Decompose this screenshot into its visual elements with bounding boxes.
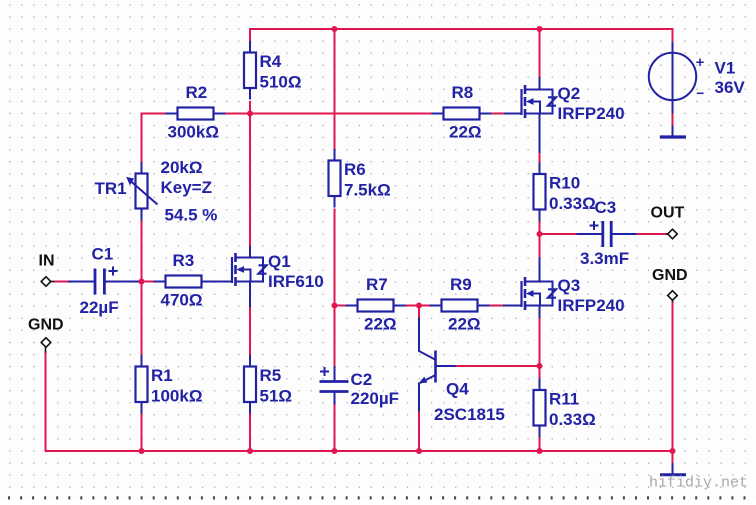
node GND connector (output) (652, 267, 688, 302)
node rail/R5 (247, 448, 253, 454)
wire top V+ rail (249, 28, 674, 30)
svg-text:R6: R6 (344, 160, 366, 179)
svg-text:hifidiy.net: hifidiy.net (649, 475, 748, 492)
resistor R3 (154, 251, 214, 310)
node R6/R7/C2 (332, 303, 338, 309)
wire bottom ground rail (46, 450, 674, 452)
connector GND left (41, 338, 51, 348)
capacitor C2 (320, 366, 400, 408)
svg-text:20kΩ: 20kΩ (161, 158, 203, 177)
svg-text:IRFP240: IRFP240 (558, 296, 625, 315)
wire node to TR1 top (141, 113, 143, 163)
wire node to R8 (250, 113, 432, 115)
wire R8 to Q2 gate (492, 113, 505, 115)
svg-text:GND: GND (28, 317, 64, 334)
svg-text:R1: R1 (151, 366, 173, 385)
svg-text:22Ω: 22Ω (364, 315, 397, 334)
ground (output) (660, 463, 686, 475)
wire R11 bottom to rail (539, 437, 541, 452)
wire R10 to OUT node (539, 221, 541, 235)
svg-text:R9: R9 (450, 275, 472, 294)
wire Q2 source lead (539, 113, 541, 154)
ground (V1) (660, 126, 686, 138)
wire C3 to OUT connector (636, 233, 668, 235)
svg-text:51Ω: 51Ω (260, 387, 293, 406)
svg-text:C2: C2 (351, 370, 373, 389)
resistor R7 (346, 275, 406, 334)
node rail/GND (670, 448, 676, 454)
svg-text:R3: R3 (173, 251, 195, 270)
svg-text:R4: R4 (260, 52, 282, 71)
MOSFET Q3 IRFP240 (522, 276, 625, 315)
svg-text:470Ω: 470Ω (161, 291, 203, 310)
svg-text:R2: R2 (186, 83, 208, 102)
wire Q4 emitter to rail (418, 411, 420, 452)
svg-text:GND: GND (652, 267, 688, 284)
resistor R4 (244, 41, 302, 100)
wire Q4 base to node (456, 365, 540, 367)
connector IN (41, 277, 51, 287)
node GND connector (input) (28, 317, 64, 353)
capacitor C3 (577, 198, 637, 268)
svg-text:Q2: Q2 (558, 84, 581, 103)
connector GND right (668, 291, 678, 301)
svg-text:Q1: Q1 (268, 252, 291, 271)
node C1/TR1/R3/R1 (139, 279, 145, 285)
MOSFET Q1 IRF610 (232, 252, 324, 291)
wire Q1 source to R5 (249, 306, 251, 355)
svg-text:Q4: Q4 (446, 380, 469, 399)
wire rail to R6 (334, 29, 336, 149)
svg-text:36V: 36V (715, 78, 746, 97)
svg-text:IRFP240: IRFP240 (558, 104, 625, 123)
node R2/R4/R8 (247, 111, 253, 117)
wire GND to rail (45, 352, 47, 452)
wire rail to Q2 drain (539, 29, 541, 78)
wire Q2 gate lead (504, 113, 522, 115)
wire TR1 bottom to input node (141, 221, 143, 282)
wire OUT node to Q3 drain (539, 234, 541, 258)
wire Q3 gate lead (503, 305, 522, 307)
connector OUT (668, 229, 678, 239)
wire GND connector down (672, 301, 674, 464)
wire R2 left (142, 113, 166, 115)
resistor R5 (244, 355, 292, 414)
MOSFET Q2 IRFP240 (522, 84, 625, 123)
svg-text:3.3mF: 3.3mF (580, 249, 629, 268)
wire Q3 source lead (539, 305, 541, 319)
wire V1 top (672, 28, 674, 42)
wire node to R1 (141, 282, 143, 356)
capacitor C1 (68, 245, 139, 318)
wire Q3 source to node (539, 318, 541, 367)
wire Q1 gate lead (213, 281, 232, 283)
wire IN to C1 (54, 281, 69, 283)
svg-text:510Ω: 510Ω (260, 73, 302, 92)
resistor R2 (166, 83, 226, 142)
resistor R6 (329, 149, 391, 208)
svg-text:0.33Ω: 0.33Ω (549, 194, 596, 213)
node rail/Q2 (537, 26, 543, 32)
wire C2 bottom to rail (334, 405, 336, 453)
wire R4 bottom to node (249, 101, 251, 114)
node Q3/Q4/R11 (537, 363, 543, 369)
svg-text:R10: R10 (549, 174, 580, 193)
resistor R9 (430, 275, 490, 334)
svg-text:IRF610: IRF610 (268, 272, 324, 291)
wire R9 to Q3 gate (490, 305, 504, 307)
svg-text:Q3: Q3 (558, 276, 581, 295)
svg-text:V1: V1 (715, 59, 736, 78)
svg-text:22Ω: 22Ω (449, 123, 482, 142)
wire node to Q1 drain (249, 114, 251, 247)
wire node to C2 (334, 306, 336, 367)
svg-text:R8: R8 (452, 83, 474, 102)
svg-text:R11: R11 (549, 390, 579, 409)
wire C1 to node (138, 281, 143, 283)
wire R1 bottom to rail (141, 414, 143, 453)
node R10/C3/Q3 (537, 231, 543, 237)
svg-text:7.5kΩ: 7.5kΩ (344, 181, 391, 200)
svg-text:R5: R5 (260, 366, 282, 385)
wire node to R3 (142, 281, 155, 283)
resistor R1 (136, 355, 203, 414)
resistor R8 (432, 83, 492, 142)
svg-text:C3: C3 (595, 198, 617, 217)
potentiometer TR1 (95, 158, 218, 225)
node rail/Q4 (416, 448, 422, 454)
node IN connector (39, 253, 55, 287)
svg-text:Key=Z: Key=Z (161, 178, 213, 197)
wire Q3 drain lead (539, 258, 541, 283)
node rail/R6 (332, 26, 338, 32)
node rail/R11 (537, 448, 543, 454)
svg-text:0.33Ω: 0.33Ω (549, 410, 596, 429)
wire node to R11 (539, 366, 541, 379)
wire Q2 source to R10 (539, 114, 541, 163)
svg-text:TR1: TR1 (95, 179, 127, 198)
wire R2 to node (226, 113, 251, 115)
wire OUT node to C3 (540, 233, 578, 235)
svg-text:22µF: 22µF (80, 298, 119, 317)
svg-text:220µF: 220µF (351, 389, 400, 408)
voltage source V1 36V (649, 42, 746, 114)
node rail/C2 (332, 448, 338, 454)
wire R7 to node (406, 305, 420, 307)
wire node to R9 (419, 305, 430, 307)
resistor R11 (534, 379, 596, 438)
svg-text:54.5 %: 54.5 % (165, 206, 218, 225)
svg-text:OUT: OUT (651, 205, 685, 222)
wire node to Q4 collector (418, 306, 420, 319)
node OUT connector (651, 205, 685, 239)
node R7/R9/Q4 (416, 303, 422, 309)
svg-text:IN: IN (39, 253, 55, 270)
svg-text:2SC1815: 2SC1815 (434, 405, 505, 424)
wire node to R7 (335, 305, 346, 307)
wire Q1 source lead (249, 281, 251, 308)
wire Q1 drain lead (249, 246, 251, 259)
transistor Q4 2SC1815 (419, 318, 505, 425)
wire R6 to node (334, 209, 336, 306)
wire R5 bottom to rail (249, 414, 251, 453)
svg-text:300kΩ: 300kΩ (168, 123, 219, 142)
svg-text:22Ω: 22Ω (448, 315, 481, 334)
node rail/R1 (139, 448, 145, 454)
svg-text:C1: C1 (92, 245, 114, 264)
svg-text:R7: R7 (366, 275, 388, 294)
wire Q2 drain lead (539, 77, 541, 91)
svg-text:100kΩ: 100kΩ (151, 387, 202, 406)
resistor R10 (534, 163, 596, 222)
wire R4 top (249, 29, 251, 41)
wire V1 bottom to ground (672, 114, 674, 126)
